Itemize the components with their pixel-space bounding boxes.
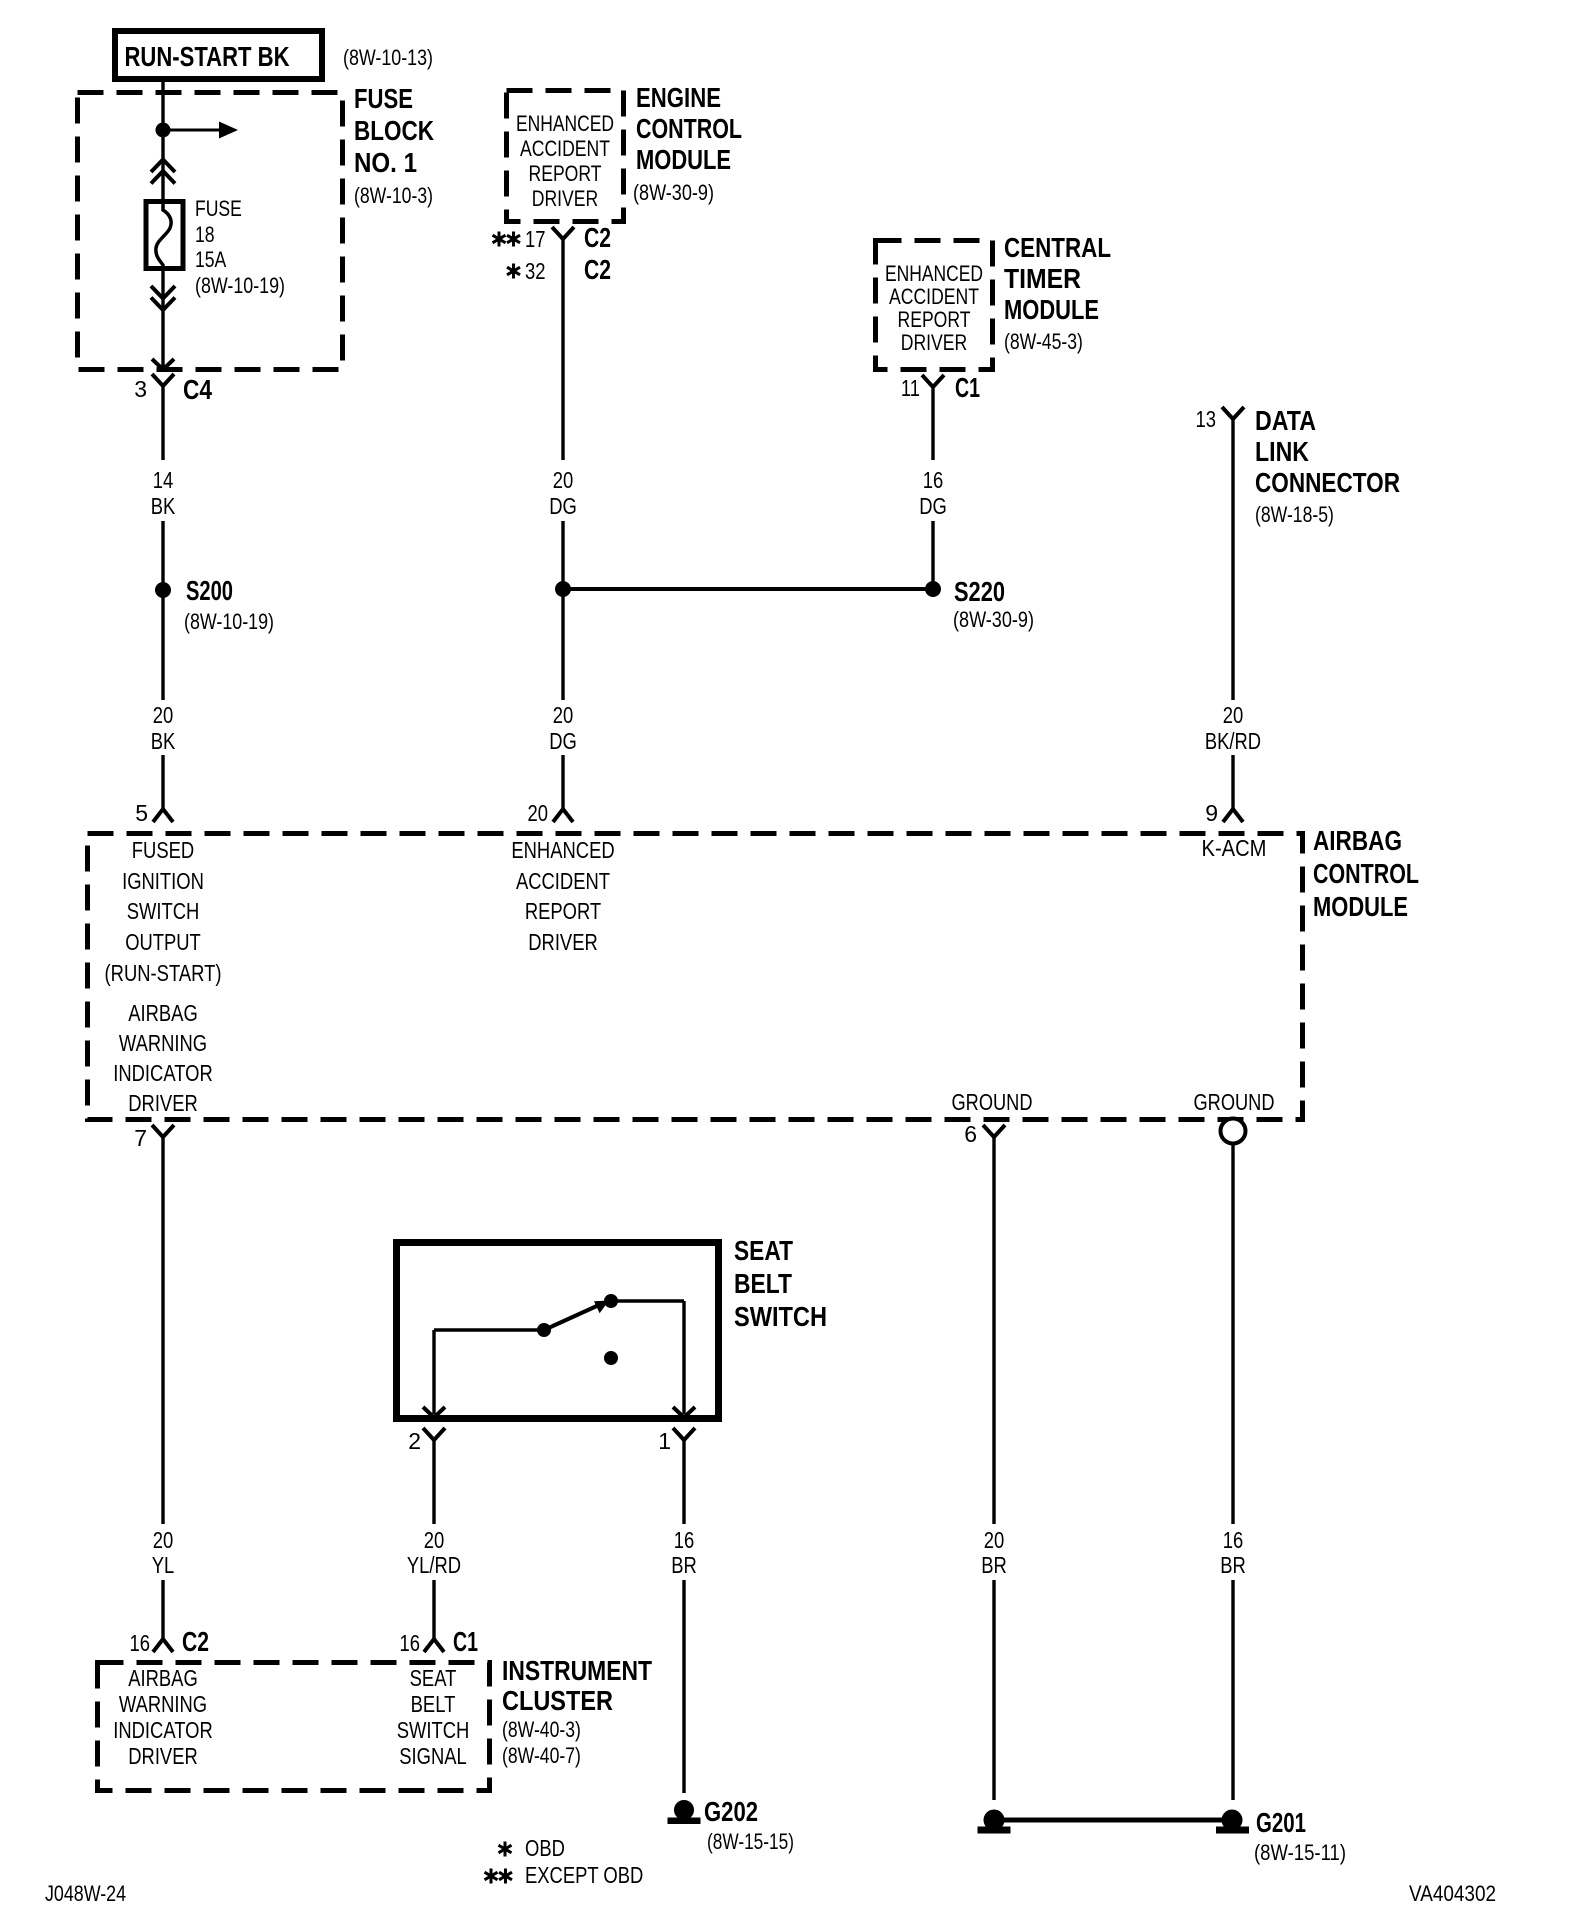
note ** (except OBD) pin 17: [498, 232, 501, 247]
svg-text:DG: DG: [549, 493, 577, 519]
svg-text:MODULE: MODULE: [1313, 891, 1408, 922]
engine control module dashed box: [507, 91, 624, 222]
svg-text:(8W-10-19): (8W-10-19): [184, 609, 274, 634]
svg-text:ENGINE: ENGINE: [636, 82, 721, 113]
svg-text:BK: BK: [151, 728, 176, 754]
SBS pin 1 fork: [673, 1428, 695, 1440]
svg-text:GROUND: GROUND: [1194, 1089, 1275, 1115]
svg-text:C4: C4: [183, 374, 212, 405]
arrowhead pin 1 inside: [673, 1407, 695, 1418]
ACM pin 6 fork: [983, 1125, 1005, 1137]
ground splice at G201 bus: [984, 1810, 1004, 1830]
svg-text:NO. 1: NO. 1: [354, 147, 417, 178]
double chevron up: [151, 160, 175, 173]
svg-text:REPORT: REPORT: [529, 161, 602, 186]
ECM connector C2 pin fork: [552, 227, 574, 239]
svg-text:5: 5: [135, 800, 148, 826]
svg-text:(8W-10-13): (8W-10-13): [343, 45, 433, 70]
svg-text:BR: BR: [1220, 1552, 1246, 1578]
wire ground bus G201: [994, 1818, 1232, 1823]
svg-text:20: 20: [553, 467, 574, 493]
svg-text:20: 20: [153, 1527, 174, 1553]
svg-text:VA404302: VA404302: [1409, 1881, 1496, 1906]
instrument cluster dashed box: [98, 1663, 490, 1791]
svg-text:16: 16: [130, 1630, 151, 1656]
svg-text:20: 20: [424, 1527, 445, 1553]
wire pin6 to G201 splice: [992, 1580, 995, 1800]
svg-text:C2: C2: [182, 1626, 209, 1657]
wire ACM pin 6 down: [992, 1137, 995, 1524]
cluster C2 pin 16 fork: [153, 1639, 173, 1652]
svg-text:SWITCH: SWITCH: [734, 1301, 827, 1332]
svg-text:INDICATOR: INDICATOR: [113, 1060, 213, 1086]
svg-text:DRIVER: DRIVER: [532, 186, 599, 211]
svg-text:(8W-10-3): (8W-10-3): [354, 183, 433, 208]
svg-text:AIRBAG: AIRBAG: [128, 1000, 198, 1026]
wire to G202: [682, 1580, 685, 1793]
svg-text:(8W-30-9): (8W-30-9): [953, 607, 1034, 632]
svg-text:FUSE: FUSE: [354, 83, 413, 114]
note ** EXCEPT OBD legend: [490, 1869, 493, 1884]
note * OBD legend: [504, 1842, 507, 1857]
svg-text:(8W-45-3): (8W-45-3): [1004, 329, 1083, 354]
fuse block no.1 dashed box: [78, 93, 343, 370]
ACM pin 9 connector fork: [1223, 809, 1243, 822]
wire ACM pin 7 down: [161, 1137, 164, 1524]
svg-text:RUN-START BK: RUN-START BK: [125, 41, 290, 72]
double chevron down: [151, 286, 175, 299]
svg-text:(8W-10-19): (8W-10-19): [195, 273, 285, 298]
svg-text:(8W-15-15): (8W-15-15): [707, 1829, 794, 1854]
svg-text:ENHANCED: ENHANCED: [885, 261, 983, 286]
svg-text:INSTRUMENT: INSTRUMENT: [502, 1655, 652, 1686]
svg-text:ACCIDENT: ACCIDENT: [520, 136, 610, 161]
svg-text:OUTPUT: OUTPUT: [125, 929, 201, 955]
wire CTM pin 11 down: [931, 387, 934, 460]
svg-text:BELT: BELT: [411, 1691, 456, 1717]
svg-text:EXCEPT OBD: EXCEPT OBD: [525, 1862, 643, 1888]
svg-text:TIMER: TIMER: [1004, 263, 1081, 294]
svg-text:18: 18: [195, 222, 215, 247]
cluster C1 pin 16 fork: [424, 1639, 444, 1652]
ground G202: [675, 1801, 694, 1820]
switch pole wire horizontal: [434, 1328, 544, 1331]
wire to ACM pin 9: [1231, 755, 1234, 809]
wire S200 to ACM pin 5: [161, 755, 164, 809]
svg-text:(8W-40-7): (8W-40-7): [502, 1743, 581, 1768]
wire to S220 splice: [561, 521, 564, 700]
ACM pin 7 fork: [152, 1125, 174, 1137]
wire to ACM pin 20: [561, 755, 564, 809]
svg-text:BR: BR: [671, 1552, 697, 1578]
svg-text:BELT: BELT: [734, 1268, 792, 1299]
airbag control module dashed box: [88, 834, 1303, 1120]
svg-text:14: 14: [153, 467, 174, 493]
splice junction at S220 branch: [556, 582, 571, 597]
wire to S200: [161, 521, 164, 700]
wire S220 horizontal: [563, 587, 933, 591]
ground G201: [1222, 1810, 1242, 1830]
svg-text:DRIVER: DRIVER: [901, 330, 968, 355]
wire to cluster C1: [432, 1580, 435, 1639]
svg-text:20: 20: [153, 702, 174, 728]
svg-text:16: 16: [923, 467, 944, 493]
svg-text:OBD: OBD: [525, 1835, 565, 1861]
svg-text:ACCIDENT: ACCIDENT: [516, 868, 610, 894]
svg-text:DRIVER: DRIVER: [128, 1743, 198, 1769]
svg-text:MODULE: MODULE: [636, 144, 731, 175]
svg-text:WARNING: WARNING: [119, 1030, 207, 1056]
svg-text:BK/RD: BK/RD: [1205, 728, 1261, 754]
svg-text:MODULE: MODULE: [1004, 294, 1099, 325]
svg-text:2: 2: [408, 1428, 421, 1454]
svg-text:SWITCH: SWITCH: [127, 898, 200, 924]
svg-text:7: 7: [134, 1125, 147, 1151]
switch pole wire left: [432, 1330, 435, 1414]
central timer module dashed box: [876, 241, 993, 370]
svg-text:DRIVER: DRIVER: [528, 929, 598, 955]
wire DLC pin 13 down: [1231, 419, 1234, 700]
svg-text:YL/RD: YL/RD: [407, 1552, 461, 1578]
svg-text:20: 20: [528, 800, 549, 826]
svg-text:DATA: DATA: [1255, 405, 1316, 436]
fuse F18 15A: [146, 202, 183, 269]
svg-text:3: 3: [134, 376, 147, 402]
switch contact upper: [605, 1295, 618, 1308]
svg-text:ACCIDENT: ACCIDENT: [889, 284, 979, 309]
svg-text:(8W-30-9): (8W-30-9): [633, 180, 714, 205]
svg-text:BK: BK: [151, 493, 176, 519]
svg-text:(8W-18-5): (8W-18-5): [1255, 502, 1334, 527]
svg-text:FUSE: FUSE: [195, 196, 242, 221]
svg-text:REPORT: REPORT: [525, 898, 601, 924]
svg-text:SEAT: SEAT: [734, 1235, 793, 1266]
data link connector pin 13 fork: [1222, 407, 1244, 419]
wire case ground to G201: [1231, 1580, 1234, 1800]
svg-text:16: 16: [1223, 1527, 1244, 1553]
svg-text:REPORT: REPORT: [898, 307, 971, 332]
svg-text:20: 20: [1223, 702, 1244, 728]
svg-text:13: 13: [1196, 406, 1217, 432]
svg-text:SEAT: SEAT: [410, 1665, 457, 1691]
svg-text:(RUN-START): (RUN-START): [105, 960, 222, 986]
arrow branch to other circuits: [163, 129, 219, 132]
svg-text:C1: C1: [453, 1626, 478, 1657]
svg-text:K-ACM: K-ACM: [1202, 835, 1267, 861]
svg-text:IGNITION: IGNITION: [122, 868, 204, 894]
wire SBS pin 2 down: [432, 1440, 435, 1524]
wire ECM pin 17/32 down: [561, 239, 564, 460]
svg-text:C2: C2: [584, 254, 611, 285]
wire ACM case ground down: [1231, 1144, 1234, 1524]
svg-text:11: 11: [901, 375, 920, 401]
ACM pin 5 connector fork: [153, 809, 173, 822]
svg-text:INDICATOR: INDICATOR: [113, 1717, 213, 1743]
svg-text:BR: BR: [981, 1552, 1007, 1578]
arrowhead pin 2 inside: [423, 1407, 445, 1418]
svg-text:AIRBAG: AIRBAG: [1313, 825, 1402, 856]
switch open contact: [605, 1352, 618, 1365]
switch throw wire horizontal: [611, 1299, 684, 1302]
wire SBS pin 1 down: [682, 1440, 685, 1524]
seat belt switch box: [397, 1243, 719, 1419]
svg-text:SWITCH: SWITCH: [397, 1717, 470, 1743]
svg-text:DG: DG: [549, 728, 577, 754]
svg-text:BLOCK: BLOCK: [354, 115, 434, 146]
svg-text:20: 20: [984, 1527, 1005, 1553]
svg-text:J048W-24: J048W-24: [45, 1881, 126, 1906]
arrowhead at fuse block edge: [152, 359, 174, 370]
svg-text:S200: S200: [186, 575, 233, 606]
switch blade with arrow: [544, 1305, 599, 1330]
note * (OBD) pin 32: [512, 264, 515, 279]
svg-text:CENTRAL: CENTRAL: [1004, 232, 1111, 263]
wire C4 to S200: [161, 386, 164, 460]
svg-text:DG: DG: [919, 493, 947, 519]
ACM pin 20 connector fork: [553, 809, 573, 822]
junction dot in fuse block: [156, 123, 170, 137]
splice S200: [156, 583, 171, 598]
svg-text:32: 32: [525, 258, 546, 284]
svg-text:CONNECTOR: CONNECTOR: [1255, 467, 1400, 498]
svg-text:CONTROL: CONTROL: [1313, 858, 1419, 889]
svg-text:20: 20: [553, 702, 574, 728]
svg-text:(8W-15-11): (8W-15-11): [1254, 1840, 1346, 1865]
svg-text:DRIVER: DRIVER: [128, 1090, 198, 1116]
svg-text:G201: G201: [1256, 1807, 1306, 1838]
svg-text:S220: S220: [954, 576, 1005, 607]
svg-text:ENHANCED: ENHANCED: [511, 837, 614, 863]
svg-text:YL: YL: [152, 1552, 175, 1578]
svg-text:16: 16: [674, 1527, 695, 1553]
svg-text:C2: C2: [584, 222, 611, 253]
wire fuse to block edge: [161, 271, 164, 368]
svg-text:16: 16: [400, 1630, 421, 1656]
ACM case ground ring terminal: [1221, 1119, 1246, 1144]
svg-text:AIRBAG: AIRBAG: [128, 1665, 198, 1691]
svg-text:C1: C1: [955, 372, 980, 403]
power feed RUN-START BK box: [115, 31, 322, 79]
svg-text:(8W-40-3): (8W-40-3): [502, 1717, 581, 1742]
wire to S220: [931, 521, 934, 589]
CTM connector C1 pin 11 fork: [922, 375, 944, 387]
fuse element curve: [156, 199, 171, 271]
svg-text:LINK: LINK: [1255, 436, 1309, 467]
svg-text:FUSED: FUSED: [132, 837, 194, 863]
splice S220: [926, 582, 941, 597]
svg-text:6: 6: [964, 1121, 977, 1147]
SBS pin 2 fork: [423, 1428, 445, 1440]
svg-text:WARNING: WARNING: [119, 1691, 207, 1717]
svg-text:ENHANCED: ENHANCED: [516, 111, 614, 136]
svg-text:9: 9: [1205, 800, 1218, 826]
svg-text:17: 17: [525, 226, 546, 252]
svg-text:SIGNAL: SIGNAL: [399, 1743, 467, 1769]
svg-text:G202: G202: [704, 1796, 758, 1827]
switch contact left: [538, 1324, 551, 1337]
svg-text:15A: 15A: [195, 247, 227, 272]
wire to cluster C2: [161, 1580, 164, 1639]
switch throw wire right: [682, 1301, 685, 1414]
wire RUN-START feed into fuse block: [161, 82, 164, 199]
svg-text:GROUND: GROUND: [952, 1089, 1033, 1115]
svg-text:1: 1: [658, 1428, 671, 1454]
svg-text:CLUSTER: CLUSTER: [502, 1685, 613, 1716]
svg-text:CONTROL: CONTROL: [636, 113, 742, 144]
connector C4 pin 3 fork: [152, 374, 174, 386]
